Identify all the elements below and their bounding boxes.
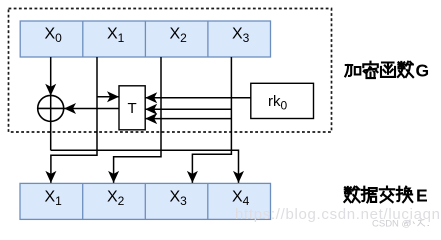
wire branch X3 into T right middle: [145, 108, 231, 110]
arrowhead into bottom box X1: [45, 171, 56, 183]
char Mi: [363, 62, 378, 78]
arrowhead into T left side: [107, 91, 119, 102]
wire X3 down and across to bottom box X3: [192, 57, 231, 183]
cell divider top 3: [207, 21, 209, 57]
char Shu: [398, 62, 413, 77]
wire X2 down and across to bottom box X2: [114, 57, 161, 183]
arrowhead into T right middle: [145, 104, 157, 115]
cell divider bottom 2: [144, 183, 146, 219]
arrowhead into bottom box X4: [233, 171, 244, 183]
wire rk0 into T right top: [145, 97, 251, 99]
wire X0 to XOR and through to exchange: [50, 57, 52, 150]
svg-text:T: T: [128, 100, 137, 117]
char Jiao: [380, 187, 394, 203]
char Jia: [345, 65, 360, 76]
char Shu2: [344, 187, 359, 202]
watermark dot: [428, 225, 430, 227]
wire branch X1 into T left: [97, 96, 119, 98]
arrowhead into T right top: [145, 92, 157, 103]
register row bottom (X1..X4 container): [20, 183, 271, 219]
T-function box: [119, 86, 145, 130]
arrowhead into XOR right: [64, 103, 76, 114]
xor adder circle: [38, 95, 64, 121]
char Huan: [397, 187, 413, 202]
cell divider top 1: [82, 21, 84, 57]
wire T output to XOR: [64, 108, 119, 110]
svg-text:E: E: [416, 186, 428, 206]
char Han: [381, 63, 395, 77]
title: encryption function G (vector CJK): [345, 62, 413, 78]
arrowhead into bottom box X2: [108, 171, 119, 183]
wire XOR output to bottom box X4: [51, 150, 239, 183]
arrowhead into bottom box X3: [187, 171, 198, 183]
arrowhead into T right bottom: [145, 113, 157, 124]
wire X1 down and across to bottom box X1: [51, 57, 97, 183]
register row top (X0..X3 container): [20, 21, 270, 57]
arrowhead into XOR top: [45, 84, 56, 96]
cell divider top 2: [144, 21, 146, 57]
cell divider bottom 3: [207, 183, 209, 219]
char Ju: [362, 187, 377, 203]
round key rk0 box: [251, 83, 314, 118]
watermark tiny CJK yao: [418, 220, 426, 227]
watermark tiny CJK xiao: [406, 220, 430, 227]
title: data exchange E (vector CJK): [344, 187, 412, 203]
cell divider bottom 1: [82, 183, 84, 219]
svg-text:G: G: [416, 60, 430, 80]
svg-text:CSDN @: CSDN @: [372, 219, 411, 230]
dashed boundary of round function F: [9, 9, 332, 133]
wire branch X3 into T right bottom: [145, 118, 231, 120]
